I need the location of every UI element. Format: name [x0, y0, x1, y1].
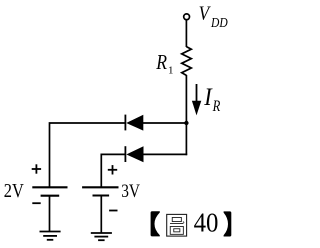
battery B1 plus sign [32, 164, 41, 173]
svg-text:R: R [155, 50, 167, 74]
ground G2 [91, 233, 112, 240]
battery B1 minus sign [32, 202, 40, 204]
svg-text:I: I [203, 84, 212, 111]
label R1 [155, 50, 173, 76]
wire B2 to ground [100, 196, 102, 234]
label 3V [121, 180, 140, 201]
diode D2 (lower) [125, 146, 143, 162]
wire upper diode anode side (right segment) [143, 122, 188, 124]
wire resistor to node [185, 75, 187, 123]
wire lower diode anode side (right segment) [143, 153, 187, 155]
caption bracket right [224, 211, 232, 236]
label 2V [4, 180, 24, 202]
label VDD [199, 2, 228, 30]
wire B1 to ground [49, 196, 51, 232]
battery B2 minus sign [109, 210, 117, 212]
wire lower diode cathode to left corner [101, 154, 125, 186]
caption number 40 [194, 208, 219, 238]
ground G1 [40, 232, 61, 240]
label IR [203, 84, 220, 115]
current arrow IR [192, 84, 201, 115]
caption character tu (figure) [167, 214, 187, 236]
svg-text:2V: 2V [4, 180, 24, 202]
wire node down to lower diode line [185, 123, 187, 155]
wire upper diode cathode to left corner [50, 123, 126, 187]
caption bracket left [151, 211, 160, 236]
battery B1 (2V) plates [32, 187, 67, 195]
diode D1 (upper) [125, 115, 143, 131]
svg-text:R: R [212, 98, 221, 116]
svg-text:V: V [199, 2, 212, 25]
wire terminal to resistor [185, 20, 187, 47]
battery B2 (3V) plates [82, 187, 118, 195]
svg-text:1: 1 [168, 64, 174, 76]
svg-text:40: 40 [194, 208, 219, 238]
terminal VDD [184, 14, 190, 20]
svg-text:3V: 3V [121, 180, 140, 201]
resistor R1 [182, 47, 192, 76]
node junction dot [184, 121, 188, 125]
battery B2 plus sign [108, 165, 117, 174]
svg-text:DD: DD [210, 15, 228, 30]
